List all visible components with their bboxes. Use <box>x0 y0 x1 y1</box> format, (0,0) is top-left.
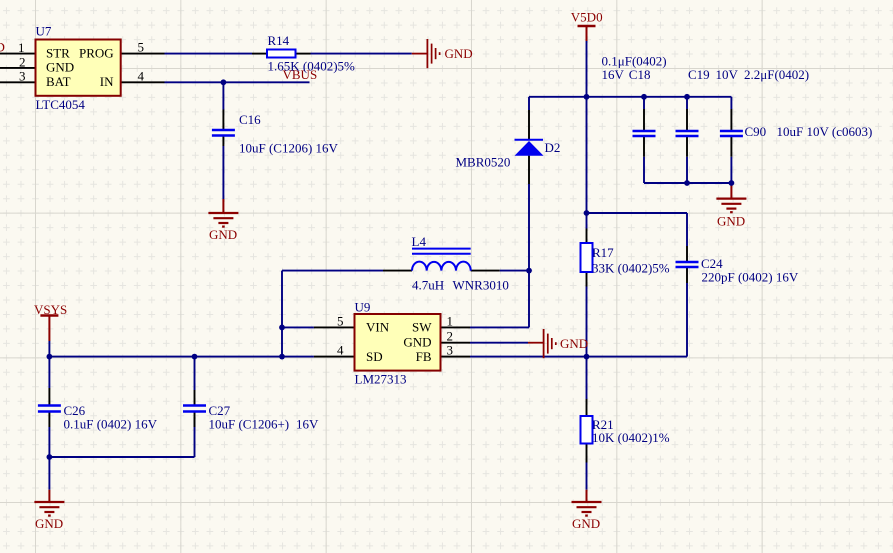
svg-text:WNR3010: WNR3010 <box>453 278 509 293</box>
svg-text:VBUS: VBUS <box>283 67 318 82</box>
svg-text:GND: GND <box>572 516 600 531</box>
svg-text:BAT: BAT <box>46 74 71 89</box>
svg-text:10V: 10V <box>716 67 739 82</box>
svg-text:GND: GND <box>35 516 63 531</box>
svg-text:0.1μF(0402): 0.1μF(0402) <box>602 53 667 68</box>
svg-text:GND: GND <box>403 335 431 350</box>
svg-text:4: 4 <box>138 68 145 83</box>
svg-text:SW: SW <box>412 320 432 335</box>
svg-text:16V: 16V <box>602 67 625 82</box>
svg-text:GND: GND <box>46 59 74 74</box>
svg-text:GND: GND <box>209 227 237 242</box>
svg-text:33K (0402)5%: 33K (0402)5% <box>592 261 670 276</box>
svg-text:10uF (C1206+): 10uF (C1206+) <box>209 417 290 432</box>
svg-text:R17: R17 <box>592 245 614 260</box>
svg-text:L4: L4 <box>412 234 427 249</box>
svg-text:U9: U9 <box>355 300 371 315</box>
svg-text:2.2μF(0402): 2.2μF(0402) <box>744 67 809 82</box>
svg-text:U7: U7 <box>36 24 52 39</box>
svg-text:4.7uH: 4.7uH <box>412 278 444 293</box>
svg-text:1: 1 <box>447 314 454 329</box>
svg-text:220pF (0402) 16V: 220pF (0402) 16V <box>702 270 799 285</box>
svg-text:10uF 10V (c0603): 10uF 10V (c0603) <box>777 124 873 139</box>
svg-text:R14: R14 <box>268 33 290 48</box>
svg-text:GND: GND <box>445 46 473 61</box>
svg-text:3: 3 <box>447 343 454 358</box>
svg-text:4: 4 <box>337 343 344 358</box>
svg-text:D: D <box>0 40 5 55</box>
svg-text:GND: GND <box>717 214 745 229</box>
svg-text:10K (0402)1%: 10K (0402)1% <box>592 430 670 445</box>
svg-text:16V: 16V <box>296 417 319 432</box>
svg-text:5: 5 <box>138 40 145 55</box>
svg-text:1: 1 <box>18 40 25 55</box>
svg-text:C19: C19 <box>688 67 710 82</box>
svg-text:2: 2 <box>19 54 26 69</box>
svg-text:SD: SD <box>366 349 383 364</box>
svg-text:PROG: PROG <box>79 46 114 61</box>
svg-text:GND: GND <box>560 336 588 351</box>
svg-text:2: 2 <box>447 329 454 344</box>
svg-text:VSYS: VSYS <box>34 302 67 317</box>
svg-text:C18: C18 <box>629 67 651 82</box>
svg-text:3: 3 <box>19 69 26 84</box>
svg-text:0.1uF (0402) 16V: 0.1uF (0402) 16V <box>64 417 158 432</box>
svg-text:V5D0: V5D0 <box>571 10 603 25</box>
svg-text:STR: STR <box>46 46 70 61</box>
svg-text:10uF (C1206) 16V: 10uF (C1206) 16V <box>239 141 339 156</box>
svg-text:LM27313: LM27313 <box>355 372 407 387</box>
svg-text:C90: C90 <box>745 124 767 139</box>
svg-text:5: 5 <box>337 314 344 329</box>
svg-text:MBR0520: MBR0520 <box>456 155 511 170</box>
svg-text:C16: C16 <box>239 112 261 127</box>
svg-text:FB: FB <box>416 349 432 364</box>
svg-text:IN: IN <box>100 74 114 89</box>
svg-text:LTC4054: LTC4054 <box>36 97 86 112</box>
svg-text:VIN: VIN <box>366 320 390 335</box>
svg-text:D2: D2 <box>545 140 561 155</box>
